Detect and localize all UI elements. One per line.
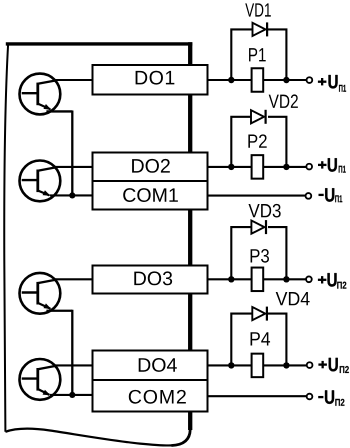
output block box DO2 [93,153,208,182]
wire thick right device border segment 1 [188,42,192,66]
wire thick right device border segment 2 [188,93,192,154]
wire torn left edge of device [4,43,8,432]
wire common emitters to COM2 [50,394,93,396]
label +Up2 row4 [318,273,346,288]
wire diode VD4 anode branch [231,314,252,366]
label P4 [251,332,271,345]
terminal +Up1 row2 [306,164,312,170]
label -Up1 row3 [319,188,343,202]
terminal +Up2 row5 [307,362,313,368]
wire DO2 output to +Up1 terminal [208,166,307,168]
junction dots row 2 [228,164,289,170]
wire bottom-right corner arc of device border [172,414,191,446]
wire diode VD1 cathode branch [268,29,286,80]
diode VD4 symbol [252,307,267,321]
terminal -Up1 row3 [306,193,312,199]
wire diode VD1 anode branch [231,29,252,80]
wire common emitters to COM1 [50,194,93,196]
output block box DO3 [93,266,208,294]
label +Up1 row2 [318,158,346,172]
label VD3 [248,204,280,218]
wire VT2 collector to DO2 [54,166,93,168]
wire thick right device border segment 4 [188,292,192,352]
wire VT3 emitter down to COM2 node [71,310,73,395]
label P2 [248,134,266,147]
output block box COM1 [93,181,208,210]
label P1 [249,48,266,61]
label +Up1 row1 [318,75,346,92]
terminal +Up2 row4 [306,276,312,282]
terminal -Up2 row6 [307,394,313,400]
transistor VT3 [20,273,73,314]
wire COM2 to -Up2 terminal [208,395,307,397]
label VD1 [245,3,271,16]
wire DO4 output to +Up2 terminal [208,364,308,366]
wire VT1 collector to DO1 [54,79,93,81]
wire VT4 collector to DO4 [54,364,93,366]
output block box COM2 [93,380,208,412]
label COM1 [123,188,178,202]
relay coil P3 [252,268,264,292]
junction dot COM2 node [69,392,75,398]
wire diode VD4 cathode branch [268,314,286,366]
relay coil P2 [252,155,264,179]
label DO2 [132,159,170,173]
label VD2 [269,94,298,107]
diode VD3 symbol [251,220,266,234]
wire thick top device border [6,42,193,45]
wire diode VD3 cathode branch [268,227,286,279]
transistor VT4 [20,359,61,400]
label P3 [251,249,269,263]
wire diode VD3 anode branch [231,227,252,279]
wire COM1 to -Up1 terminal [208,195,306,197]
junction dots row 1 [228,77,289,83]
wire DO1 output to +Up1 terminal [208,79,307,81]
junction dot COM1 node [69,192,75,198]
diode VD2 symbol [251,110,266,124]
relay coil P4 [252,354,264,378]
wire DO3 output to +Up2 terminal [208,278,307,280]
label DO1 [136,71,175,85]
wire torn bottom edge of device [5,429,172,446]
label DO3 [134,271,172,285]
label DO4 [139,358,177,372]
label VD4 [276,292,310,305]
output block box DO1 [93,65,208,95]
wire diode VD2 anode branch [231,117,252,167]
diode VD1 symbol [253,22,268,36]
relay coil P1 [252,68,264,92]
label +Up2 row5 [318,358,348,373]
terminal +Up1 row1 [307,77,313,83]
output block box DO4 [93,351,208,381]
transistor VT2 [20,161,61,202]
wire VT3 collector to DO3 [54,278,93,280]
junction dots row 4 [228,276,289,282]
junction dots row 5 [228,362,289,368]
wire VT1 emitter down to COM1 node [71,111,73,196]
label -Up2 row6 [318,390,344,405]
transistor VT1 [20,74,73,115]
wire thick right device border segment 5 [188,410,192,431]
wire diode VD2 cathode branch [268,117,286,167]
label COM2 [129,390,186,404]
wire thick right device border segment 3 [188,208,192,267]
